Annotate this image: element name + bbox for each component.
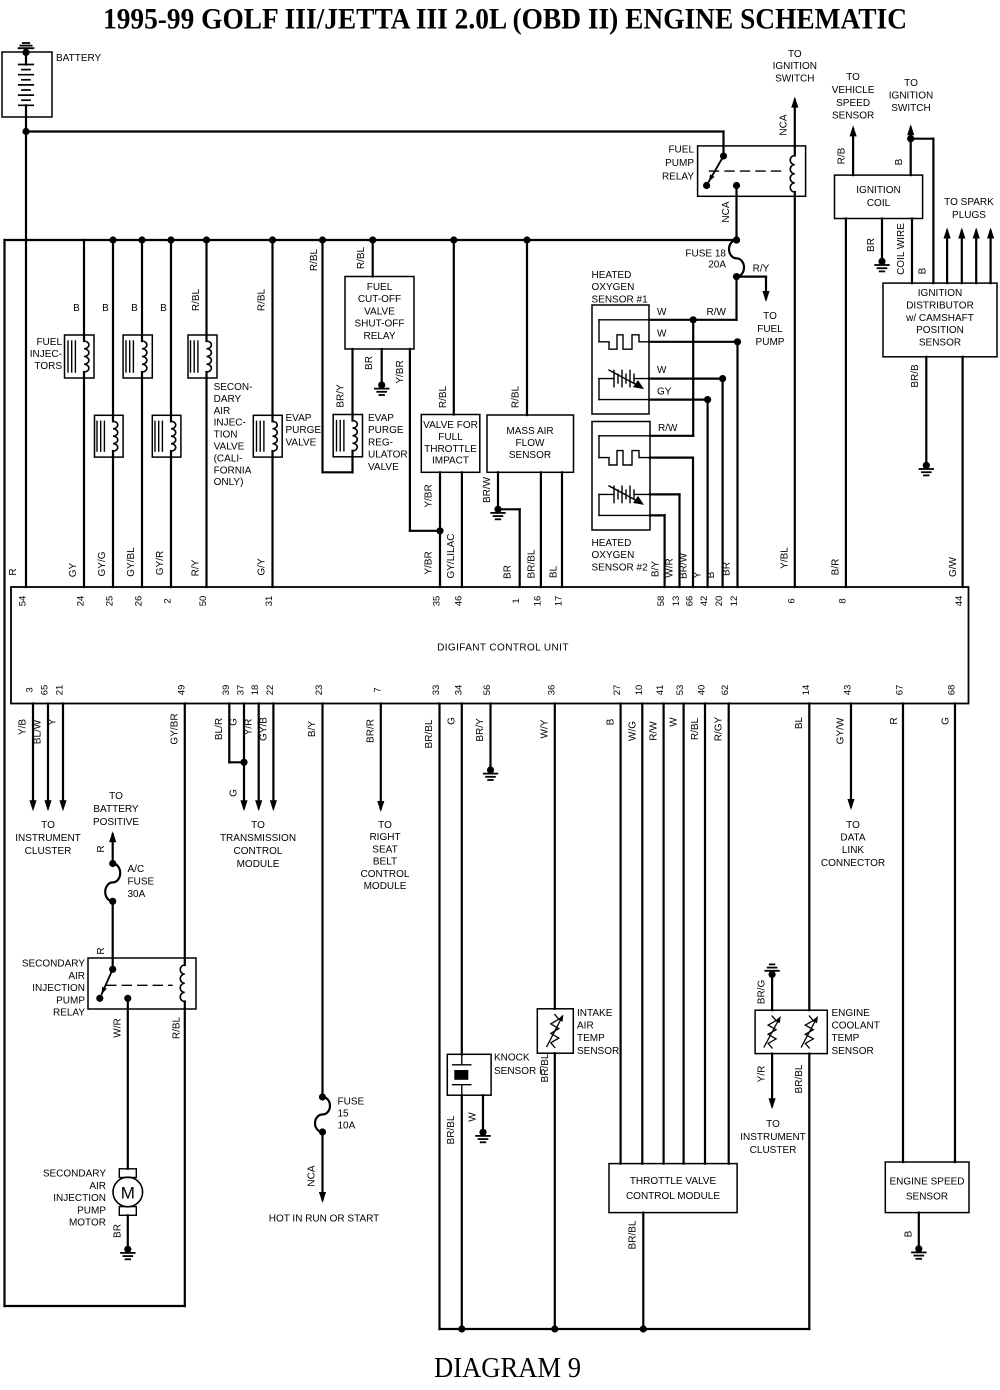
svg-text:MASS AIR: MASS AIR [506,426,553,437]
svg-text:8: 8 [837,598,848,603]
svg-text:SECON-: SECON- [214,382,253,393]
svg-text:SENSOR: SENSOR [832,1046,874,1057]
svg-text:BELT: BELT [373,857,397,868]
svg-text:R/W: R/W [658,423,678,434]
svg-text:INSTRUMENT: INSTRUMENT [740,1132,806,1143]
svg-text:IGNITION: IGNITION [856,185,900,196]
svg-text:Y: Y [693,571,704,578]
svg-text:24: 24 [76,596,87,607]
svg-text:1: 1 [511,598,522,603]
svg-text:EVAP: EVAP [368,413,394,424]
svg-text:TION: TION [214,430,238,441]
svg-text:BR/BL: BR/BL [794,1064,805,1093]
svg-text:62: 62 [720,685,731,696]
svg-text:68: 68 [947,685,958,696]
svg-text:R/BL: R/BL [309,248,320,271]
svg-text:INSTRUMENT: INSTRUMENT [15,833,81,844]
svg-text:G: G [940,717,951,725]
svg-text:BR/BL: BR/BL [424,719,435,748]
svg-text:SENSOR: SENSOR [906,1192,948,1203]
svg-text:TO: TO [766,1119,780,1130]
svg-text:FUSE 18: FUSE 18 [685,249,726,260]
svg-text:6: 6 [786,598,797,603]
svg-text:RELAY: RELAY [363,331,395,342]
svg-text:42: 42 [699,596,710,607]
svg-text:GY/R: GY/R [155,551,166,575]
svg-text:SENSOR I: SENSOR I [494,1066,542,1077]
svg-text:G/W: G/W [948,556,959,577]
svg-text:TRANSMISSION: TRANSMISSION [220,833,296,844]
svg-text:R/Y: R/Y [190,559,201,576]
svg-text:VALVE: VALVE [286,437,317,448]
svg-text:GY: GY [68,562,79,577]
svg-text:LINK: LINK [842,845,865,856]
svg-text:CUT-OFF: CUT-OFF [358,294,401,305]
svg-text:IGNITION: IGNITION [889,90,933,101]
svg-text:OXYGEN: OXYGEN [592,550,635,561]
svg-text:FUEL: FUEL [668,145,694,156]
svg-text:SECONDARY: SECONDARY [22,959,85,970]
svg-text:G/Y: G/Y [256,558,267,576]
svg-text:25: 25 [105,596,116,607]
svg-text:G: G [229,789,240,797]
svg-text:SECONDARY: SECONDARY [43,1169,106,1180]
svg-text:POSITIVE: POSITIVE [93,817,139,828]
svg-text:REG-: REG- [368,437,393,448]
svg-text:TO: TO [251,820,265,831]
svg-text:FUSE: FUSE [338,1097,365,1108]
svg-text:17: 17 [554,596,565,607]
svg-text:G: G [229,718,240,726]
svg-text:GY/W: GY/W [836,717,847,744]
svg-text:13: 13 [671,596,682,607]
svg-text:B: B [706,571,717,578]
svg-text:BR/BL: BR/BL [627,1220,638,1249]
svg-text:Y/BR: Y/BR [395,360,406,383]
svg-text:VALVE: VALVE [368,462,399,473]
svg-text:20: 20 [714,596,725,607]
svg-text:AIR: AIR [68,971,85,982]
svg-text:Y/R: Y/R [757,1066,768,1083]
svg-text:BR: BR [364,356,375,370]
svg-text:GY/BR: GY/BR [169,713,180,744]
svg-text:CONNECTOR: CONNECTOR [821,858,885,869]
svg-text:MOTOR: MOTOR [69,1218,106,1229]
svg-text:12: 12 [729,596,740,607]
svg-text:TO: TO [109,791,123,802]
svg-text:G: G [446,717,457,725]
svg-text:CONTROL: CONTROL [361,869,410,880]
svg-text:56: 56 [482,685,493,696]
svg-text:PURGE: PURGE [368,425,404,436]
svg-text:BR/W: BR/W [482,476,493,503]
svg-text:16: 16 [532,596,543,607]
svg-text:B: B [903,1230,914,1237]
svg-text:BR/B: BR/B [910,364,921,388]
svg-text:SWITCH: SWITCH [775,73,814,84]
svg-text:FLOW: FLOW [516,438,545,449]
svg-text:Y/BR: Y/BR [424,551,435,574]
svg-text:TO: TO [41,820,55,831]
svg-text:TO: TO [378,820,392,831]
svg-text:SPEED: SPEED [836,98,870,109]
svg-text:VALVE FOR: VALVE FOR [423,420,478,431]
svg-text:M: M [121,1184,135,1203]
svg-text:FUEL: FUEL [757,324,783,335]
svg-text:TEMP: TEMP [577,1033,605,1044]
svg-text:18: 18 [250,685,261,696]
svg-text:36: 36 [546,685,557,696]
svg-text:41: 41 [655,685,666,696]
svg-text:BL: BL [548,565,559,578]
svg-text:2: 2 [163,598,174,603]
svg-text:23: 23 [314,685,325,696]
svg-text:3: 3 [25,687,36,692]
svg-text:A/C: A/C [128,864,145,875]
svg-text:SENSOR: SENSOR [919,338,961,349]
svg-text:Y/BL: Y/BL [779,547,790,569]
svg-text:BL: BL [794,716,805,729]
svg-text:EVAP: EVAP [286,413,312,424]
svg-text:B: B [160,303,167,314]
svg-text:MODULE: MODULE [237,859,280,870]
svg-text:TO: TO [846,72,860,83]
svg-text:BATTERY: BATTERY [93,804,139,815]
svg-text:W/R: W/R [112,1018,123,1037]
svg-text:COIL WIRE: COIL WIRE [896,223,907,275]
svg-text:BR/W: BR/W [679,552,690,579]
svg-text:INJECTION: INJECTION [53,1193,106,1204]
svg-text:ONLY): ONLY) [214,477,244,488]
svg-text:TEMP: TEMP [832,1033,860,1044]
svg-text:DIAGRAM 9: DIAGRAM 9 [434,1352,581,1384]
svg-text:POSITION: POSITION [916,325,964,336]
svg-text:GY/BL: GY/BL [126,547,137,577]
svg-text:DATA: DATA [840,833,866,844]
svg-text:B/R: B/R [831,559,842,576]
svg-text:B: B [917,267,928,274]
svg-text:TO: TO [904,78,918,89]
svg-text:SENSOR: SENSOR [577,1046,619,1057]
svg-text:R/W: R/W [707,307,727,318]
svg-text:RIGHT: RIGHT [369,832,400,843]
svg-text:B: B [73,303,80,314]
svg-text:GY/B: GY/B [258,717,269,741]
svg-text:TO: TO [788,49,802,60]
svg-text:SWITCH: SWITCH [891,103,930,114]
svg-text:NCA: NCA [779,114,790,135]
svg-text:DARY: DARY [214,394,242,405]
svg-text:B/Y: B/Y [307,721,318,737]
svg-text:PUMP: PUMP [56,995,85,1006]
svg-text:SENSOR: SENSOR [509,450,551,461]
svg-text:GY/LILAC: GY/LILAC [446,533,457,578]
svg-text:IGNITION: IGNITION [773,61,817,72]
svg-text:CONTROL: CONTROL [234,846,283,857]
svg-text:R: R [96,845,107,852]
svg-text:W: W [467,1112,478,1122]
svg-text:SEAT: SEAT [372,844,397,855]
svg-text:BR/R: BR/R [365,719,376,743]
svg-text:IGNITION: IGNITION [918,288,962,299]
svg-text:26: 26 [134,596,145,607]
svg-text:PUMP: PUMP [756,337,785,348]
svg-text:INJEC-: INJEC- [214,418,246,429]
svg-text:58: 58 [656,596,667,607]
svg-text:TORS: TORS [34,361,62,372]
svg-text:10: 10 [634,685,645,696]
svg-text:Y/BR: Y/BR [424,484,435,507]
svg-text:BR/G: BR/G [757,980,768,1005]
svg-text:FUSE: FUSE [128,877,155,888]
svg-text:SENSOR #1: SENSOR #1 [592,294,649,305]
svg-text:VALVE: VALVE [364,306,395,317]
svg-text:HEATED: HEATED [592,270,632,281]
svg-text:SENSOR #2: SENSOR #2 [592,562,649,573]
svg-text:R: R [96,947,107,954]
svg-text:35: 35 [432,596,443,607]
svg-text:R/Y: R/Y [753,264,770,275]
svg-text:SHUT-OFF: SHUT-OFF [355,319,405,330]
svg-text:TO SPARK: TO SPARK [944,197,994,208]
svg-text:BR/BL: BR/BL [540,1053,551,1082]
svg-text:FULL: FULL [438,432,463,443]
svg-text:RELAY: RELAY [662,172,694,183]
svg-text:27: 27 [612,685,623,696]
svg-text:34: 34 [453,685,464,696]
svg-text:KNOCK: KNOCK [494,1053,530,1064]
svg-text:(CALI-: (CALI- [214,453,243,464]
svg-text:OXYGEN: OXYGEN [592,282,635,293]
svg-text:W: W [657,365,667,376]
svg-text:R/W: R/W [649,721,660,741]
svg-text:7: 7 [372,687,383,692]
svg-text:39: 39 [221,685,232,696]
svg-text:VALVE: VALVE [214,442,245,453]
svg-text:1995-99 GOLF III/JETTA III 2.0: 1995-99 GOLF III/JETTA III 2.0L (OBD II)… [103,3,907,36]
svg-text:AIR: AIR [214,406,231,417]
svg-text:MODULE: MODULE [364,881,407,892]
svg-text:R/BL: R/BL [511,385,522,408]
svg-text:SENSOR: SENSOR [832,111,874,122]
svg-text:46: 46 [453,596,464,607]
svg-text:DISTRIBUTOR: DISTRIBUTOR [906,300,974,311]
svg-text:W: W [657,307,667,318]
svg-text:R: R [889,717,900,724]
svg-text:PLUGS: PLUGS [952,210,986,221]
svg-text:Y: Y [48,718,59,725]
svg-text:PUMP: PUMP [665,158,694,169]
svg-text:W/R: W/R [664,558,675,577]
svg-text:67: 67 [895,685,906,696]
svg-text:BR/Y: BR/Y [336,384,347,408]
svg-text:15: 15 [338,1109,350,1120]
svg-text:RELAY: RELAY [53,1008,85,1019]
svg-text:CONTROL MODULE: CONTROL MODULE [626,1191,720,1202]
svg-text:Y/B: Y/B [18,719,29,735]
svg-text:NCA: NCA [721,201,732,222]
svg-text:FORNIA: FORNIA [214,465,252,476]
svg-text:BL/R: BL/R [214,718,225,740]
svg-text:R/BL: R/BL [356,246,367,269]
svg-text:37: 37 [236,685,247,696]
svg-text:40: 40 [697,685,708,696]
svg-text:DIGIFANT CONTROL UNIT: DIGIFANT CONTROL UNIT [437,643,569,654]
svg-text:HEATED: HEATED [592,538,632,549]
svg-text:FUEL: FUEL [36,337,62,348]
svg-text:44: 44 [954,596,965,607]
svg-text:49: 49 [176,685,187,696]
svg-text:INJECTION: INJECTION [32,983,85,994]
svg-text:R/B: R/B [836,147,847,164]
svg-text:BR: BR [866,238,877,252]
svg-text:INTAKE: INTAKE [577,1008,613,1019]
svg-text:W/Y: W/Y [539,719,550,738]
svg-text:50: 50 [198,596,209,607]
svg-text:THROTTLE: THROTTLE [424,444,477,455]
svg-text:Y/R: Y/R [243,719,254,736]
svg-text:BATTERY: BATTERY [56,53,102,64]
svg-text:B/Y: B/Y [650,561,661,577]
svg-text:R/GY: R/GY [714,716,725,741]
svg-text:ENGINE SPEED: ENGINE SPEED [889,1177,964,1188]
svg-text:INJEC-: INJEC- [30,349,62,360]
svg-text:GY/G: GY/G [97,551,108,576]
svg-text:R/BL: R/BL [690,717,701,740]
svg-text:30A: 30A [128,889,146,900]
svg-text:COOLANT: COOLANT [832,1021,880,1032]
svg-text:W/G: W/G [627,721,638,741]
svg-text:w/ CAMSHAFT: w/ CAMSHAFT [905,313,974,324]
svg-text:14: 14 [801,685,812,696]
svg-text:R/BL: R/BL [438,385,449,408]
svg-text:54: 54 [18,596,29,607]
svg-text:BR/Y: BR/Y [475,718,486,742]
svg-text:W: W [669,717,680,727]
svg-text:R/BL: R/BL [257,288,268,311]
svg-text:GY: GY [657,387,672,398]
svg-text:IMPACT: IMPACT [432,456,469,467]
svg-text:B: B [606,718,617,725]
svg-text:AIR: AIR [89,1181,106,1192]
svg-text:PURGE: PURGE [286,425,322,436]
svg-text:BL/W: BL/W [33,719,44,744]
svg-text:53: 53 [675,685,686,696]
svg-text:CLUSTER: CLUSTER [750,1145,797,1156]
svg-text:R/BL: R/BL [191,288,202,311]
svg-text:AIR: AIR [577,1021,594,1032]
svg-text:W: W [657,329,667,340]
svg-text:BR: BR [503,565,514,579]
svg-text:B: B [102,303,109,314]
svg-text:TO: TO [763,311,777,322]
svg-text:65: 65 [40,685,51,696]
svg-text:BR/BL: BR/BL [527,549,538,578]
svg-text:HOT IN RUN OR START: HOT IN RUN OR START [269,1214,380,1225]
svg-text:CLUSTER: CLUSTER [25,846,72,857]
svg-text:B: B [894,158,905,165]
svg-text:ENGINE: ENGINE [832,1008,871,1019]
svg-text:R: R [8,568,19,575]
svg-text:BR/BL: BR/BL [446,1115,457,1144]
svg-text:31: 31 [264,596,275,607]
svg-text:R/BL: R/BL [171,1016,182,1039]
svg-text:COIL: COIL [867,198,891,209]
svg-text:21: 21 [55,685,66,696]
svg-text:33: 33 [431,685,442,696]
svg-text:VEHICLE: VEHICLE [832,85,875,96]
svg-text:43: 43 [843,685,854,696]
svg-text:B: B [131,303,138,314]
svg-text:THROTTLE VALVE: THROTTLE VALVE [630,1176,717,1187]
svg-text:BR: BR [112,1224,123,1238]
svg-text:22: 22 [265,685,276,696]
svg-text:TO: TO [846,820,860,831]
svg-text:10A: 10A [338,1121,356,1132]
svg-text:66: 66 [685,596,696,607]
svg-text:PUMP: PUMP [77,1205,106,1216]
svg-text:FUEL: FUEL [367,282,393,293]
svg-text:ULATOR: ULATOR [368,450,408,461]
svg-text:20A: 20A [708,260,726,271]
svg-text:BR: BR [721,562,732,576]
svg-text:NCA: NCA [307,1165,318,1186]
